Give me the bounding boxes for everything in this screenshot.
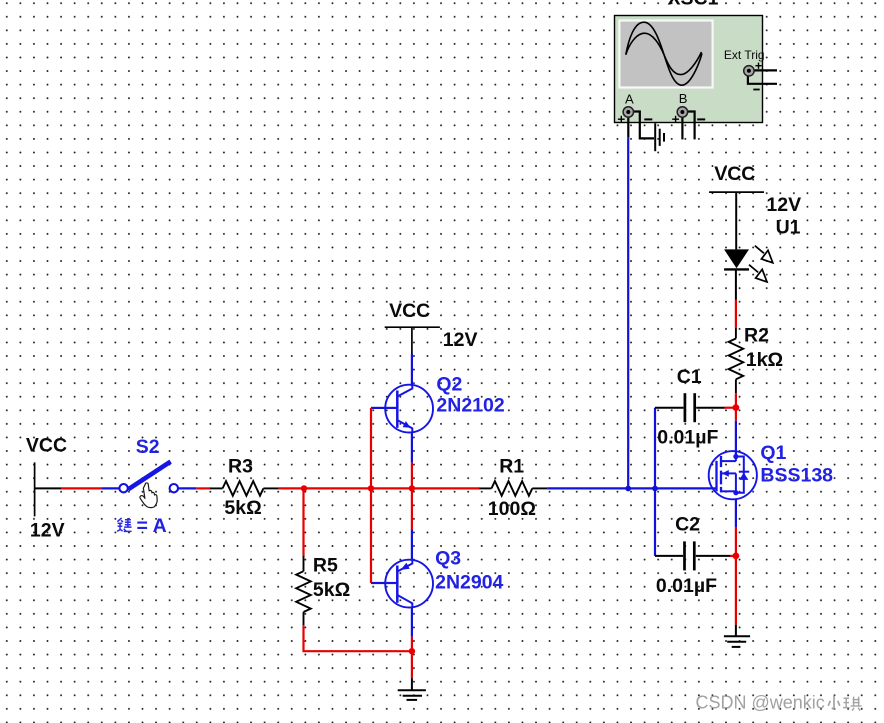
wire rail to R1 (red)	[412, 487, 480, 489]
svg-text:12V: 12V	[443, 329, 478, 351]
wire Q3 top blue	[411, 529, 413, 560]
node Q2 emitter junction	[409, 485, 415, 491]
switch S2 right contact	[170, 484, 178, 492]
Q1 body arrow	[722, 470, 729, 477]
VCC power symbol (right)	[709, 191, 764, 193]
Ext Trig plus sign	[755, 63, 761, 69]
svg-text:Q1: Q1	[760, 442, 786, 464]
wire R2 to node (red)	[735, 393, 737, 407]
wire Q1 source (blue)	[735, 499, 737, 528]
svg-text:A: A	[625, 92, 634, 107]
svg-text:0.01µF: 0.01µF	[657, 427, 718, 449]
svg-text:CSDN @wenkic: CSDN @wenkic	[696, 693, 825, 713]
switch S2 left contact	[119, 484, 127, 492]
svg-text:S2: S2	[136, 436, 160, 458]
Q2 emitter arrow	[403, 421, 411, 428]
VCC power symbol (middle)	[385, 327, 440, 354]
wire Q3 collector red	[411, 637, 413, 651]
LED U1 triangle	[724, 249, 749, 268]
svg-text:C2: C2	[675, 514, 700, 536]
svg-text:0.01µF: 0.01µF	[656, 575, 717, 597]
resistor R5	[296, 556, 311, 625]
svg-text:XSC1: XSC1	[668, 0, 719, 10]
node R3/R5 junction	[301, 485, 307, 491]
wire blue segment to switch contact	[101, 487, 119, 489]
wire node to Q1 drain (red)	[735, 408, 737, 421]
wire R3 to rail (red)	[279, 487, 412, 489]
svg-text:2N2904: 2N2904	[435, 572, 503, 594]
svg-text:B: B	[679, 91, 688, 106]
wire VCC to Q2 collector (blue)	[411, 354, 413, 386]
svg-text:R2: R2	[744, 325, 769, 347]
wire R1 to MOSFET gate (blue)	[547, 487, 716, 489]
wire Q3 collector blue	[411, 608, 413, 637]
Ext Trig stub wires	[748, 70, 777, 83]
node Q3 collector junction	[409, 648, 415, 654]
svg-text:Q2: Q2	[436, 373, 462, 395]
wire C2 to node (red)	[730, 555, 733, 557]
wire LED to R2 (black lead)	[735, 269, 737, 300]
svg-text:Q3: Q3	[435, 547, 461, 569]
MOSFET Q1 BSS138	[709, 451, 757, 499]
wire channel B stub left	[681, 118, 683, 140]
VCC power symbol (left)	[34, 462, 36, 516]
wire Q3 top red	[411, 488, 413, 529]
transistor Q2 2N2102	[385, 385, 433, 433]
Q3 emitter arrow	[401, 563, 410, 570]
Q1 drain dot	[733, 454, 738, 459]
node C2/Q1 source junction	[733, 553, 740, 560]
transistor Q3 2N2904	[385, 560, 433, 608]
wire Q2 base (blue)	[371, 407, 385, 409]
channel B minus sign	[697, 118, 705, 120]
resistor R2	[729, 328, 744, 394]
svg-text:U1: U1	[776, 216, 801, 238]
wire base rail vertical (red)	[370, 408, 372, 583]
wire Q2 emitter red	[411, 463, 413, 489]
wire LED to R2 (red)	[735, 300, 737, 328]
wire channel A black stub	[627, 118, 629, 138]
channel A minus sign	[644, 118, 652, 120]
LED light arrow 1	[755, 246, 773, 263]
switch key label 键 = A	[117, 518, 132, 532]
svg-text:Ext Trig: Ext Trig	[724, 48, 765, 62]
node capacitor branch junction	[652, 486, 658, 492]
LED U1 cathode bar	[724, 268, 749, 270]
LED light arrow 2	[749, 265, 767, 282]
svg-text:5kΩ: 5kΩ	[313, 579, 350, 601]
svg-text:R5: R5	[313, 555, 338, 577]
svg-text:= A: = A	[137, 515, 167, 537]
wire channel A to circuit (blue vertical)	[627, 138, 629, 487]
wire R5 bottom (red)	[304, 625, 412, 651]
capacitor C2	[655, 541, 730, 570]
node scope A junction	[625, 486, 631, 492]
svg-text:R3: R3	[228, 455, 253, 477]
wire node to Q1 drain (blue)	[735, 421, 737, 457]
scope trace channel A	[626, 22, 702, 85]
ground (right)	[724, 625, 750, 647]
wire channel B stub right	[687, 112, 695, 140]
svg-text:BSS138: BSS138	[760, 465, 833, 487]
Ext Trig minus sign	[753, 89, 759, 91]
svg-text:VCC: VCC	[389, 300, 430, 322]
svg-text:R1: R1	[499, 455, 524, 477]
hand cursor	[140, 483, 157, 508]
Q1 source dot	[733, 490, 738, 495]
wire red segment to switch	[61, 487, 101, 489]
wire R5 top (red)	[302, 488, 304, 556]
watermark 小琪 glyphs	[828, 696, 840, 710]
wire Q3 base (blue)	[371, 582, 385, 584]
wire Q1 source (red)	[735, 528, 737, 556]
svg-text:VCC: VCC	[26, 435, 67, 457]
wire red to R3	[196, 487, 210, 489]
Ext Trig terminal	[744, 66, 754, 76]
svg-text:12V: 12V	[766, 194, 801, 216]
watermark CSDN	[696, 693, 825, 713]
oscilloscope display screen	[619, 21, 712, 88]
Q1 body diode triangle	[739, 473, 748, 480]
wire VCC-left to switch (black segment)	[35, 487, 61, 489]
oscilloscope XSC1 body	[615, 16, 763, 123]
switch S2 lever	[128, 462, 170, 490]
ground (middle)	[398, 678, 426, 700]
wire switch to R3 blue	[178, 487, 196, 489]
resistor R1	[480, 481, 548, 496]
svg-text:2N2102: 2N2102	[436, 395, 504, 417]
terminal B	[677, 107, 687, 117]
wire to ground right (red)	[735, 556, 737, 625]
wire VCC to LED (black lead)	[735, 192, 737, 249]
capacitor C1	[655, 393, 725, 422]
terminal A	[623, 107, 633, 117]
channel B plus sign	[672, 116, 679, 123]
ground (scope, rotated)	[655, 123, 664, 151]
resistor R3	[210, 481, 279, 496]
wire capacitor branch vertical (blue)	[654, 408, 656, 556]
svg-text:VCC: VCC	[714, 163, 755, 185]
node Q2/Q3 base junction	[368, 485, 374, 491]
wire to ground mid (red)	[411, 651, 413, 678]
scope trace channel B	[626, 33, 702, 74]
svg-text:12V: 12V	[30, 520, 65, 542]
wire C1 to node (red)	[725, 407, 734, 409]
channel A plus sign	[618, 116, 625, 123]
svg-text:1kΩ: 1kΩ	[746, 349, 783, 371]
svg-text:100Ω: 100Ω	[488, 498, 536, 520]
wire Q2 emitter blue	[411, 433, 413, 463]
svg-text:C1: C1	[677, 366, 702, 388]
svg-text:5kΩ: 5kΩ	[224, 497, 261, 519]
wire A minus to ground	[633, 112, 654, 139]
node C1/R2/Q1 junction	[733, 404, 740, 411]
